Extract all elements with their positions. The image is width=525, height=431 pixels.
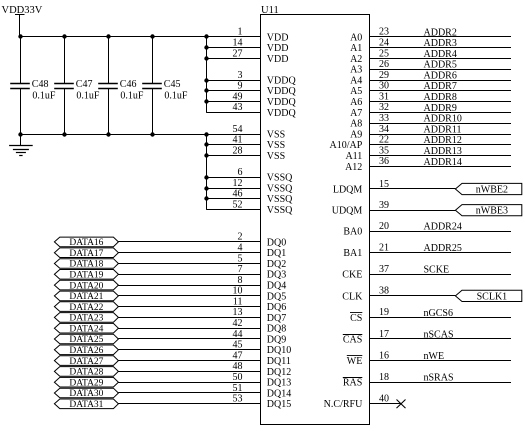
pin 47 (DQ11) wire — [118, 350, 290, 367]
svg-text:A4: A4 — [350, 76, 362, 87]
svg-text:14: 14 — [233, 38, 243, 49]
pin 27 (VDD) — [206, 48, 288, 65]
svg-text:ADDR14: ADDR14 — [424, 157, 462, 168]
svg-text:47: 47 — [233, 350, 243, 361]
pin 22 (A10/AP) → net ADDR12 — [330, 135, 511, 152]
net flag DATA22 — [54, 302, 118, 313]
pin 12 (VSSQ) — [206, 178, 293, 195]
svg-text:DATA21: DATA21 — [69, 292, 103, 302]
svg-text:26: 26 — [379, 59, 389, 70]
svg-text:50: 50 — [233, 372, 243, 383]
svg-text:8: 8 — [238, 275, 243, 286]
junction — [204, 186, 208, 190]
net flag DATA20 — [54, 280, 118, 291]
svg-text:CKE: CKE — [342, 270, 362, 281]
svg-text:A1: A1 — [350, 43, 362, 54]
junction — [18, 132, 22, 136]
svg-text:45: 45 — [233, 340, 243, 351]
svg-text:SCKE: SCKE — [424, 265, 450, 276]
pin 20 (BA0) → ADDR24 — [343, 221, 511, 238]
svg-text:37: 37 — [379, 264, 389, 275]
svg-text:SCLK1: SCLK1 — [477, 291, 508, 302]
net flag DATA30 — [54, 388, 118, 399]
svg-text:A5: A5 — [350, 86, 362, 97]
svg-text:DQ6: DQ6 — [267, 302, 286, 313]
svg-text:ADDR7: ADDR7 — [424, 81, 457, 92]
junction — [204, 88, 208, 92]
pin 35 (A11) → net ADDR13 — [345, 145, 511, 162]
svg-text:ADDR6: ADDR6 — [424, 71, 457, 82]
svg-text:7: 7 — [238, 264, 243, 275]
svg-text:U11: U11 — [261, 5, 279, 16]
svg-text:ADDR2: ADDR2 — [424, 27, 457, 38]
pin 26 (A3) → net ADDR5 — [350, 59, 511, 76]
svg-text:5: 5 — [238, 253, 243, 264]
svg-text:CS: CS — [350, 313, 362, 324]
junction — [150, 132, 154, 136]
svg-text:0.1uF: 0.1uF — [120, 91, 143, 102]
svg-text:VSSQ: VSSQ — [267, 183, 293, 194]
svg-text:0.1uF: 0.1uF — [164, 91, 188, 102]
net flag DATA21 — [54, 291, 118, 302]
svg-text:nSCAS: nSCAS — [424, 329, 454, 340]
capacitor C45 0.1uF — [142, 37, 188, 134]
junction — [150, 34, 154, 38]
svg-text:CLK: CLK — [342, 291, 363, 302]
capacitor C48 0.1uF — [10, 37, 56, 134]
junction — [204, 175, 208, 179]
svg-text:DATA20: DATA20 — [69, 281, 103, 291]
wire VDD rail to pin 1 — [20, 36, 261, 38]
svg-text:nWBE3: nWBE3 — [476, 206, 508, 217]
svg-text:0.1uF: 0.1uF — [76, 91, 100, 102]
ground — [9, 134, 33, 156]
pin 41 (VSS) — [206, 135, 285, 152]
pin 28 (VSS) — [206, 145, 285, 162]
svg-text:4: 4 — [238, 243, 243, 254]
svg-text:30: 30 — [379, 81, 389, 92]
net flag DATA19 — [54, 270, 118, 281]
svg-text:44: 44 — [233, 329, 243, 340]
svg-text:DATA25: DATA25 — [69, 335, 103, 345]
pin 13 (DQ7) wire — [118, 307, 286, 324]
pin 9 (VDDQ) — [206, 81, 296, 98]
net flag DATA31 — [54, 399, 118, 410]
pin 3 (VDDQ) — [206, 70, 296, 87]
capacitor C47 0.1uF — [54, 37, 100, 134]
pin 5 (DQ2) wire — [118, 253, 286, 270]
svg-text:A11: A11 — [345, 151, 362, 162]
svg-text:31: 31 — [379, 91, 389, 102]
svg-text:A6: A6 — [350, 97, 362, 108]
svg-text:DQ0: DQ0 — [267, 237, 286, 248]
pin 25 (A2) → net ADDR4 — [350, 48, 511, 65]
pin 8 (DQ4) wire — [118, 275, 286, 292]
pin 34 (A9) → net ADDR11 — [350, 124, 511, 141]
svg-text:49: 49 — [233, 91, 243, 102]
svg-text:6: 6 — [238, 167, 243, 178]
svg-text:9: 9 — [238, 81, 243, 92]
svg-text:VSSQ: VSSQ — [267, 205, 293, 216]
pin 6 (VSSQ) — [206, 167, 293, 184]
svg-text:LDQM: LDQM — [333, 184, 363, 195]
junction — [18, 34, 22, 38]
pin 39 (UDQM) → nWBE3 — [332, 200, 522, 217]
pin 7 (DQ3) wire — [118, 264, 286, 281]
pin 42 (DQ8) wire — [118, 318, 286, 335]
pin 32 (A7) → net ADDR9 — [350, 102, 511, 119]
svg-text:40: 40 — [379, 394, 389, 405]
svg-text:C45: C45 — [164, 79, 181, 90]
svg-text:32: 32 — [379, 102, 389, 113]
svg-text:34: 34 — [379, 124, 389, 135]
svg-text:DATA18: DATA18 — [69, 260, 103, 270]
net flag DATA23 — [54, 313, 118, 324]
junction — [204, 132, 208, 136]
svg-text:41: 41 — [233, 135, 243, 146]
pin 50 (DQ13) wire — [118, 372, 291, 389]
svg-text:51: 51 — [233, 383, 243, 394]
svg-text:DATA23: DATA23 — [69, 314, 103, 324]
svg-text:VDD: VDD — [267, 43, 289, 54]
svg-text:28: 28 — [233, 145, 243, 156]
svg-text:52: 52 — [233, 199, 243, 210]
pin 14 (VDD) — [206, 38, 288, 55]
svg-text:C46: C46 — [120, 79, 137, 90]
junction — [204, 45, 208, 49]
pin 29 (A4) → net ADDR6 — [350, 70, 511, 87]
pin 19 (CS) → nGCS6 — [350, 307, 511, 324]
svg-text:VDDQ: VDDQ — [267, 108, 297, 119]
pin 51 (DQ14) wire — [118, 383, 291, 400]
svg-text:ADDR4: ADDR4 — [424, 49, 457, 60]
pin 54 (VSS) — [233, 124, 286, 141]
svg-text:22: 22 — [379, 135, 389, 146]
svg-text:DATA22: DATA22 — [69, 303, 103, 313]
svg-text:ADDR25: ADDR25 — [424, 243, 462, 254]
svg-text:nWBE2: nWBE2 — [476, 184, 508, 195]
svg-text:VSSQ: VSSQ — [267, 194, 293, 205]
junction — [106, 132, 110, 136]
pin 24 (A1) → net ADDR3 — [350, 38, 511, 55]
svg-text:VDDQ: VDDQ — [267, 97, 297, 108]
svg-text:13: 13 — [233, 307, 243, 318]
pin 45 (DQ10) wire — [118, 340, 291, 357]
svg-text:DATA27: DATA27 — [69, 357, 103, 367]
svg-text:UDQM: UDQM — [332, 206, 363, 217]
svg-text:35: 35 — [379, 145, 389, 156]
junction — [204, 196, 208, 200]
svg-text:ADDR10: ADDR10 — [424, 114, 462, 125]
svg-text:VDD: VDD — [267, 32, 289, 43]
pin 16 (WE) → nWE — [347, 350, 511, 367]
svg-text:nSRAS: nSRAS — [424, 373, 454, 384]
pin 52 (VSSQ) — [206, 199, 293, 216]
svg-text:19: 19 — [379, 307, 389, 318]
pin 38 (CLK) → SCLK1 — [342, 286, 522, 303]
junction — [106, 34, 110, 38]
svg-text:WE: WE — [347, 356, 363, 367]
net flag DATA24 — [54, 323, 118, 334]
svg-text:ADDR5: ADDR5 — [424, 60, 457, 71]
svg-text:DATA17: DATA17 — [69, 249, 103, 259]
svg-text:DQ12: DQ12 — [267, 367, 291, 378]
svg-text:ADDR11: ADDR11 — [424, 124, 462, 135]
pin 40 (N.C/RFU) no-connect — [324, 394, 406, 411]
svg-text:VSS: VSS — [267, 151, 285, 162]
svg-text:VSS: VSS — [267, 140, 285, 151]
pin 37 (CKE) → SCKE — [342, 264, 511, 281]
svg-text:BA1: BA1 — [343, 248, 362, 259]
svg-text:53: 53 — [233, 394, 243, 405]
svg-text:18: 18 — [379, 372, 389, 383]
svg-text:DQ4: DQ4 — [267, 281, 286, 292]
svg-text:A8: A8 — [350, 119, 362, 130]
svg-text:DATA16: DATA16 — [69, 238, 103, 248]
junction — [62, 132, 66, 136]
svg-text:VDDQ: VDDQ — [267, 86, 297, 97]
svg-text:2: 2 — [238, 232, 243, 243]
svg-text:ADDR24: ADDR24 — [424, 222, 462, 233]
pin 36 (A12) → net ADDR14 — [345, 156, 511, 173]
pin 44 (DQ9) wire — [118, 329, 286, 346]
svg-text:C47: C47 — [76, 79, 93, 90]
svg-text:1: 1 — [238, 27, 243, 38]
pin 4 (DQ1) wire — [118, 243, 286, 260]
svg-text:ADDR9: ADDR9 — [424, 103, 457, 114]
pin 46 (VSSQ) — [206, 189, 293, 206]
op IC U11 outline — [261, 5, 370, 425]
svg-text:42: 42 — [233, 318, 243, 329]
svg-text:A9: A9 — [350, 129, 362, 140]
wire VSS vertical bus — [206, 134, 208, 210]
svg-text:43: 43 — [233, 102, 243, 113]
pin 33 (A8) → net ADDR10 — [350, 113, 511, 130]
svg-text:BA0: BA0 — [343, 227, 362, 238]
svg-text:DQ14: DQ14 — [267, 388, 291, 399]
pin 18 (RAS) → nSRAS — [343, 372, 511, 389]
svg-text:DQ11: DQ11 — [267, 356, 291, 367]
svg-text:RAS: RAS — [343, 378, 362, 389]
junction — [204, 34, 208, 38]
wire VDD vertical bus — [206, 37, 208, 113]
net flag DATA27 — [54, 356, 118, 367]
svg-text:21: 21 — [379, 243, 389, 254]
svg-text:11: 11 — [233, 296, 243, 307]
svg-text:12: 12 — [233, 178, 243, 189]
svg-text:A2: A2 — [350, 54, 362, 65]
svg-text:27: 27 — [233, 48, 243, 59]
svg-text:DQ9: DQ9 — [267, 334, 286, 345]
junction — [62, 34, 66, 38]
pin 31 (A6) → net ADDR8 — [350, 91, 511, 108]
net flag DATA16 — [54, 237, 118, 248]
svg-text:10: 10 — [233, 286, 243, 297]
net flag DATA26 — [54, 345, 118, 356]
svg-text:48: 48 — [233, 361, 243, 372]
svg-text:ADDR8: ADDR8 — [424, 92, 457, 103]
pin 43 (VDDQ) — [206, 102, 296, 119]
pin 48 (DQ12) wire — [118, 361, 291, 378]
junction — [204, 56, 208, 60]
net flag DATA29 — [54, 377, 118, 388]
svg-text:DATA30: DATA30 — [69, 389, 103, 399]
svg-text:A0: A0 — [350, 32, 362, 43]
svg-text:nGCS6: nGCS6 — [424, 308, 453, 319]
svg-text:A7: A7 — [350, 108, 362, 119]
svg-text:36: 36 — [379, 156, 389, 167]
svg-text:DATA29: DATA29 — [69, 378, 103, 388]
svg-text:VDDQ: VDDQ — [267, 76, 297, 87]
wire VSS rail to pin 54 — [20, 134, 261, 136]
svg-text:DQ5: DQ5 — [267, 291, 286, 302]
capacitor C46 0.1uF — [98, 37, 144, 134]
junction — [204, 153, 208, 157]
svg-text:VSSQ: VSSQ — [267, 173, 293, 184]
svg-text:DQ15: DQ15 — [267, 399, 291, 410]
svg-text:3: 3 — [238, 70, 243, 81]
svg-text:DQ10: DQ10 — [267, 345, 291, 356]
pin 53 (DQ15) wire — [118, 394, 291, 411]
pin 49 (VDDQ) — [206, 91, 296, 108]
svg-text:DQ7: DQ7 — [267, 313, 286, 324]
svg-text:39: 39 — [379, 200, 389, 211]
pin 30 (A5) → net ADDR7 — [350, 81, 511, 98]
svg-text:A3: A3 — [350, 65, 362, 76]
svg-text:DQ2: DQ2 — [267, 259, 286, 270]
svg-text:54: 54 — [233, 124, 243, 135]
power symbol VDD33V — [2, 5, 43, 37]
svg-text:23: 23 — [379, 27, 389, 38]
svg-text:20: 20 — [379, 221, 389, 232]
svg-text:DQ1: DQ1 — [267, 248, 286, 259]
svg-text:DATA28: DATA28 — [69, 368, 103, 378]
svg-text:A10/AP: A10/AP — [330, 140, 363, 151]
svg-text:DQ13: DQ13 — [267, 378, 291, 389]
svg-text:N.C/RFU: N.C/RFU — [324, 399, 363, 410]
pin 21 (BA1) → ADDR25 — [343, 243, 511, 260]
pin 10 (DQ5) wire — [118, 286, 286, 303]
svg-text:A12: A12 — [345, 162, 362, 173]
pin 15 (LDQM) → nWBE2 — [333, 179, 522, 196]
svg-text:25: 25 — [379, 48, 389, 59]
svg-text:0.1uF: 0.1uF — [32, 91, 56, 102]
junction — [204, 78, 208, 82]
svg-text:DQ8: DQ8 — [267, 324, 286, 335]
svg-text:DATA24: DATA24 — [69, 324, 103, 334]
svg-text:VSS: VSS — [267, 129, 285, 140]
svg-text:DATA26: DATA26 — [69, 346, 103, 356]
net flag DATA28 — [54, 367, 118, 378]
svg-text:DATA31: DATA31 — [69, 400, 103, 410]
svg-text:29: 29 — [379, 70, 389, 81]
net flag DATA17 — [54, 248, 118, 259]
svg-text:33: 33 — [379, 113, 389, 124]
svg-text:ADDR12: ADDR12 — [424, 135, 462, 146]
svg-text:DATA19: DATA19 — [69, 271, 103, 281]
svg-text:nWE: nWE — [424, 351, 445, 362]
junction — [204, 99, 208, 103]
junction — [204, 142, 208, 146]
net flag DATA25 — [54, 334, 118, 345]
svg-text:CAS: CAS — [343, 334, 362, 345]
svg-text:ADDR13: ADDR13 — [424, 146, 462, 157]
pin 17 (CAS) → nSCAS — [343, 329, 511, 346]
pin 11 (DQ6) wire — [118, 296, 286, 313]
pin 1 (VDD) — [238, 27, 289, 44]
svg-text:46: 46 — [233, 189, 243, 200]
svg-text:C48: C48 — [32, 79, 49, 90]
pin 2 (DQ0) wire — [118, 232, 286, 249]
svg-text:24: 24 — [379, 38, 389, 49]
svg-text:16: 16 — [379, 350, 389, 361]
svg-text:DQ3: DQ3 — [267, 270, 286, 281]
svg-text:VDD: VDD — [267, 54, 289, 65]
pin 23 (A0) → net ADDR2 — [350, 27, 511, 44]
net flag DATA18 — [54, 259, 118, 270]
svg-text:ADDR3: ADDR3 — [424, 38, 457, 49]
